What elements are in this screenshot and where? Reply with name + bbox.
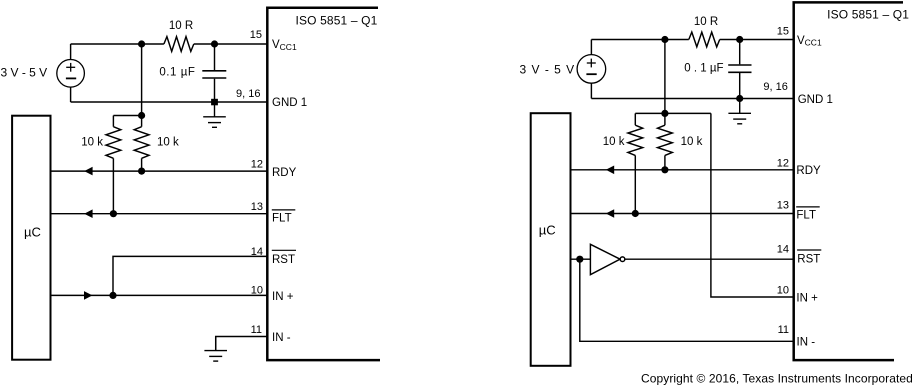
arrow from uC on IN+ (left) bbox=[84, 291, 92, 300]
junction node F (FLT / R2, left) bbox=[110, 210, 117, 217]
svg-text:14: 14 bbox=[251, 246, 263, 258]
svg-text:IN +: IN + bbox=[796, 293, 818, 305]
resistor R3 10k (left circuit, right pull-up) bbox=[134, 116, 179, 172]
wire: V1 top lead (left) bbox=[70, 44, 72, 60]
junction node M (FLT / R5, right) bbox=[632, 210, 639, 217]
svg-text:10: 10 bbox=[251, 284, 263, 296]
svg-text:3 V - 5 V: 3 V - 5 V bbox=[1, 66, 48, 80]
wire: VCC1 top rail (left) bbox=[71, 43, 268, 45]
wire: IN- net to ground (left) bbox=[216, 337, 268, 351]
wire: RDY net (left) bbox=[51, 170, 267, 172]
svg-text:µC: µC bbox=[24, 225, 41, 240]
svg-text:FLT: FLT bbox=[272, 212, 292, 224]
svg-text:10 R: 10 R bbox=[694, 16, 718, 28]
svg-text:10 k: 10 k bbox=[81, 137, 103, 149]
resistor R2 10k (left circuit, left pull-up) bbox=[81, 116, 121, 214]
ground symbol GND1 (left) bbox=[203, 102, 226, 127]
svg-text:10 k: 10 k bbox=[157, 137, 179, 149]
wire: VCC1 top rail (right) bbox=[591, 39, 793, 41]
inverter U3 (triangle with bubble) bbox=[590, 244, 624, 274]
svg-text:RDY: RDY bbox=[272, 167, 297, 179]
arrow into uC on RDY (left) bbox=[84, 167, 92, 176]
svg-text:3 V - 5 V: 3 V - 5 V bbox=[520, 62, 576, 76]
junction node G (IN+ / RST vertical, left) bbox=[109, 292, 116, 299]
wire: inverter output to RST pin (right) bbox=[625, 258, 794, 260]
junction node D (pull-up jog, left) bbox=[138, 112, 145, 119]
svg-text:10 k: 10 k bbox=[603, 136, 625, 148]
svg-text:VCC1: VCC1 bbox=[797, 35, 822, 48]
resistor R6 10k (right circuit, right pull-up) bbox=[658, 113, 703, 169]
svg-text:IN +: IN + bbox=[272, 291, 294, 303]
svg-text:13: 13 bbox=[777, 200, 789, 212]
svg-text:10 R: 10 R bbox=[169, 20, 193, 32]
svg-text:11: 11 bbox=[778, 324, 789, 336]
junction node H (VCC rail / V vertical, right) bbox=[661, 36, 668, 43]
arrow into uC on FLT (right) bbox=[606, 209, 614, 218]
voltage source V2 3V-5V (right) bbox=[577, 55, 606, 84]
wire: RDY net (right) bbox=[571, 169, 794, 171]
IC U1 ISO5851-Q1 box (left) bbox=[267, 8, 380, 360]
wire: uC output to inverter input (right) bbox=[571, 258, 591, 260]
wire: RST net (left) bbox=[113, 256, 267, 295]
junction node K (pull-up jog, right) bbox=[661, 110, 668, 117]
svg-text:VCC1: VCC1 bbox=[272, 39, 297, 52]
wire: vertical to IN+ (right) bbox=[711, 113, 794, 297]
wire: vertical from VCC rail to pull-up jog (right) bbox=[664, 40, 666, 114]
wire: FLT net (right) bbox=[571, 213, 794, 215]
voltage source V1 3V-5V (left) bbox=[57, 60, 85, 88]
svg-text:9, 16: 9, 16 bbox=[763, 81, 787, 93]
resistor R5 10k (right circuit, left pull-up) bbox=[603, 113, 643, 213]
svg-text:ISO 5851 – Q1: ISO 5851 – Q1 bbox=[827, 8, 909, 22]
wire: pull-up jog (left) bbox=[113, 115, 141, 117]
wire: GND1 bottom rail (left) bbox=[71, 101, 268, 103]
wire: V2 bottom lead (right) bbox=[590, 83, 592, 98]
svg-text:10: 10 bbox=[777, 285, 789, 297]
arrow into uC on FLT (left) bbox=[84, 209, 92, 218]
pin label FLT with overline (left) bbox=[272, 210, 296, 224]
svg-text:11: 11 bbox=[251, 324, 262, 336]
ground symbol on IN- (left) bbox=[204, 337, 227, 362]
resistor R1 10R (left) bbox=[164, 20, 194, 51]
wire: V1 bottom lead (left) bbox=[70, 87, 72, 102]
wire: IN+ net (left) bbox=[51, 294, 267, 296]
capacitor C2 0.1uF (right) bbox=[684, 40, 751, 99]
svg-text:IN -: IN - bbox=[797, 337, 816, 349]
wire: IN- net from uC branch (right) bbox=[580, 259, 794, 341]
wire: pull-up jog (right) bbox=[635, 112, 711, 114]
svg-text:0.1 µF: 0.1 µF bbox=[159, 66, 195, 78]
svg-text:12: 12 bbox=[777, 157, 789, 169]
svg-text:10 k: 10 k bbox=[681, 136, 703, 148]
junction node A (VCC rail / V1 vertical, left) bbox=[138, 40, 145, 47]
svg-text:GND 1: GND 1 bbox=[272, 97, 307, 109]
pin label RST with overline (left) bbox=[272, 250, 296, 266]
pin label FLT with overline (right) bbox=[796, 207, 820, 221]
svg-text:15: 15 bbox=[250, 29, 262, 41]
svg-text:GND 1: GND 1 bbox=[798, 94, 833, 106]
svg-text:FLT: FLT bbox=[796, 209, 816, 221]
wire: GND1 bottom rail (right) bbox=[591, 98, 793, 100]
junction node I (VCC rail / C2 top, right) bbox=[736, 36, 743, 43]
svg-text:13: 13 bbox=[251, 201, 263, 213]
wire: FLT net (left) bbox=[51, 213, 267, 215]
microcontroller block uC (left) bbox=[12, 116, 50, 360]
svg-text:ISO 5851 – Q1: ISO 5851 – Q1 bbox=[295, 13, 377, 27]
svg-text:9, 16: 9, 16 bbox=[236, 88, 260, 100]
svg-text:12: 12 bbox=[251, 159, 263, 171]
resistor R4 10R (right) bbox=[689, 16, 720, 47]
svg-text:RST: RST bbox=[272, 254, 295, 266]
svg-text:Copyright © 2016, Texas Instru: Copyright © 2016, Texas Instruments Inco… bbox=[641, 371, 913, 385]
arrow into uC on RDY (right) bbox=[606, 166, 614, 175]
svg-text:RDY: RDY bbox=[796, 165, 821, 177]
svg-text:14: 14 bbox=[777, 244, 789, 256]
IC U2 ISO5851-Q1 box (right) bbox=[794, 2, 910, 360]
pin label RST with overline (right) bbox=[797, 250, 821, 266]
wire: vertical from VCC rail to pull-up jog (left) bbox=[141, 44, 143, 116]
microcontroller block uC (right) bbox=[531, 113, 571, 366]
junction node C (GND rail / C1 bottom, square, left) bbox=[211, 99, 218, 106]
junction node E (RDY / R3, left) bbox=[138, 168, 145, 175]
svg-text:µC: µC bbox=[539, 223, 556, 238]
junction node L (RDY / R6, right) bbox=[661, 166, 668, 173]
capacitor C1 0.1uF (left) bbox=[159, 44, 226, 102]
ground symbol GND1 (right) bbox=[728, 99, 751, 124]
svg-text:0 . 1 µF: 0 . 1 µF bbox=[684, 63, 723, 75]
svg-text:IN -: IN - bbox=[272, 332, 291, 344]
junction node N (inverter input / IN- branch, right) bbox=[576, 256, 583, 263]
svg-text:15: 15 bbox=[777, 26, 789, 38]
wire: V2 top lead (right) bbox=[590, 40, 592, 55]
junction node J (GND rail / C2 bottom, right) bbox=[736, 95, 743, 102]
svg-text:RST: RST bbox=[797, 254, 820, 266]
junction node B (VCC rail / C1 top, left) bbox=[211, 40, 218, 47]
